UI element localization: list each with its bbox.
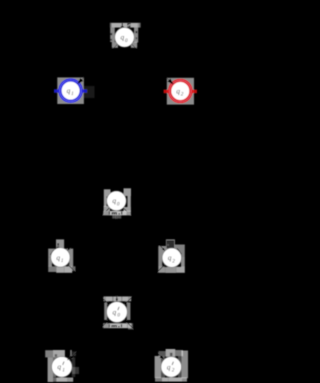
svg-text:0: 0 (117, 313, 120, 319)
label band above q0 top (110, 23, 141, 28)
svg-text:q: q (67, 86, 71, 95)
slivers qp1 (53, 357, 56, 377)
svg-text:0: 0 (125, 38, 128, 44)
edge q0top to q2red (132, 44, 170, 81)
faint patch right of q1 blue (84, 86, 95, 98)
svg-text:0: 0 (117, 201, 120, 207)
red tick dashes beside q2 red (164, 90, 169, 94)
svg-text:q: q (176, 86, 180, 95)
blue tick dashes beside q1 blue (54, 89, 59, 93)
label column above q1 mid (56, 239, 64, 249)
state qp0 (107, 302, 128, 323)
inner slivers qp2 (161, 356, 165, 377)
svg-text:q: q (121, 33, 125, 42)
glyph fragments below qp0 (109, 324, 110, 327)
halo box q2 red (167, 78, 194, 105)
arrowhead onto q2 red overlay (167, 78, 173, 84)
boxes around qp2 (159, 351, 166, 357)
bottom blocks q1 mid (48, 266, 56, 272)
svg-text:q: q (113, 307, 117, 316)
tick marks q0 top sides (110, 33, 112, 36)
band above qp0 (104, 296, 132, 301)
left column beside qp1 (48, 357, 54, 382)
state q2 mid (162, 248, 181, 267)
state q1 mid (51, 248, 70, 267)
band below qp0 (103, 323, 131, 328)
edge qp0 to qp1 (72, 319, 109, 356)
arrow contact blob qp1 (67, 356, 72, 361)
halo box q1 blue (57, 77, 84, 104)
svg-text:1: 1 (71, 91, 74, 97)
glyph fragments above q0 top (122, 23, 123, 27)
edge qp0 to qp2 (124, 319, 160, 356)
state q0 mid (107, 191, 127, 211)
edge q0mid to q2mid (123, 208, 163, 249)
svg-text:q: q (56, 253, 60, 262)
diagonal tick at q1 mid top-left (50, 250, 54, 255)
glyph fragments below q0 mid (109, 211, 110, 215)
faint marks in label column above q1 mid (57, 243, 59, 246)
caption blocks below qp1 (53, 378, 56, 382)
vertical edge stub below q0 mid (116, 215, 118, 218)
bottom blocks q2 mid (158, 267, 165, 273)
label column above q2 mid (dark 1) (166, 239, 175, 250)
state q0 top (115, 28, 135, 48)
edge q1mid to qp0 (67, 264, 107, 303)
edge q2mid to qp0 (126, 265, 165, 303)
svg-text:q: q (112, 196, 116, 205)
svg-text:2: 2 (172, 368, 175, 374)
svg-text:1: 1 (62, 367, 65, 373)
svg-text:q: q (57, 362, 61, 371)
small column below q0 mid band (112, 215, 121, 218)
edge q0mid to q1mid (69, 208, 109, 249)
halo boxes q1 mid (48, 249, 56, 258)
halo patches q0 top (110, 28, 115, 42)
svg-text:2: 2 (172, 258, 175, 264)
faint mark label 1 above qp2 (170, 353, 173, 356)
svg-text:q: q (168, 253, 172, 262)
boxes around qp1 (45, 350, 53, 357)
label band below q0 mid (covers edges) (103, 211, 131, 216)
right column beside qp2 (181, 351, 188, 379)
arrowhead onto q1 blue overlay (77, 78, 83, 84)
edge q0mid to qp0 vertical (115, 211, 117, 299)
caption blocks below qp2 (155, 377, 162, 381)
state qp1 (52, 357, 73, 378)
diagonal tick at q2 mid top-right (177, 248, 181, 254)
left column beside qp2 (155, 356, 162, 378)
svg-text:q: q (167, 362, 171, 371)
state q2 red accepting (170, 81, 190, 101)
svg-text:2: 2 (181, 92, 184, 98)
faint mark label above qp1 (55, 354, 58, 357)
state q1 blue accepting (61, 81, 81, 101)
state qp2 (161, 357, 182, 378)
halo box qp0 (104, 303, 107, 321)
right block below qp0 (128, 323, 133, 329)
halo corner boxes q0 mid (104, 189, 111, 196)
dark block label 1 above q2 mid (166, 240, 174, 248)
halo boxes q2 mid (158, 246, 166, 257)
edge q0top to q1blue (81, 44, 117, 80)
svg-text:1: 1 (61, 258, 64, 264)
